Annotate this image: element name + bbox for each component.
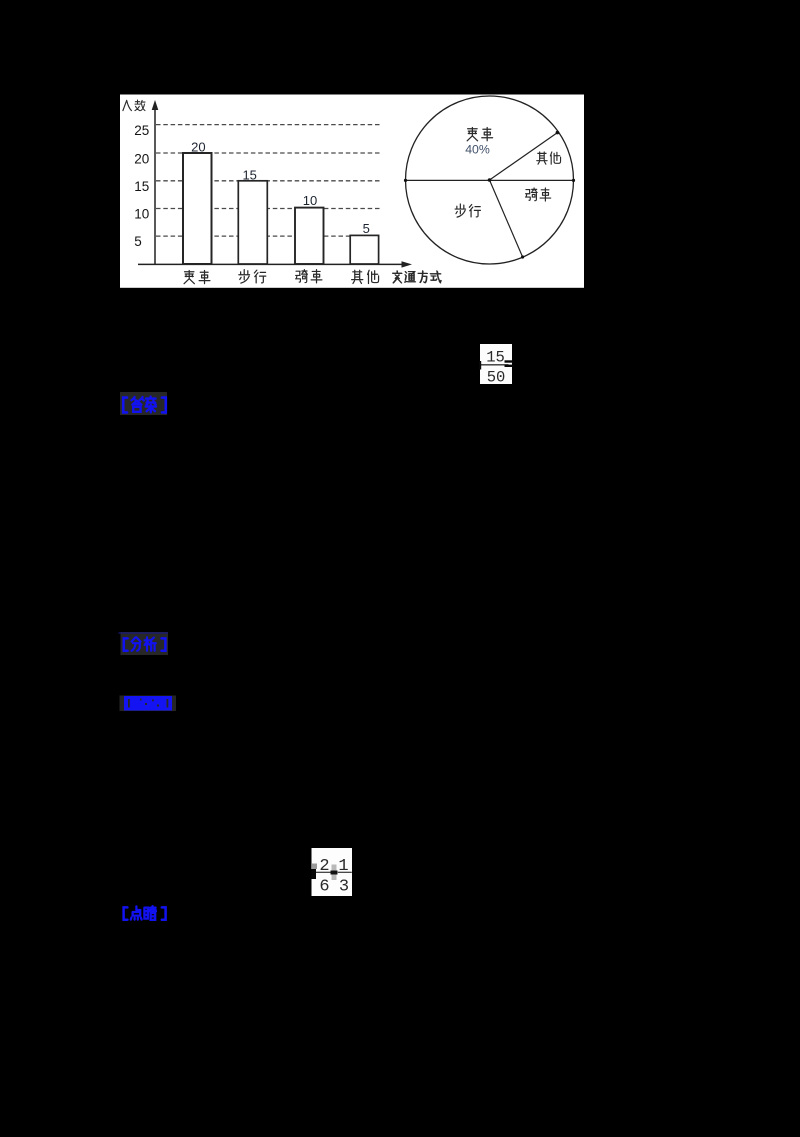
- svg-text:2: 2: [319, 857, 329, 876]
- slice line to upper right (乘车/其他): [490, 133, 558, 180]
- bar value labels: [191, 139, 370, 236]
- svg-text:50: 50: [487, 369, 506, 387]
- 分: [132, 637, 141, 650]
- 】: [162, 398, 166, 413]
- bar 步行 15: [238, 181, 267, 264]
- svg-text:20: 20: [191, 139, 205, 154]
- pie label 步行: [455, 204, 465, 217]
- chart figure white panel: [120, 95, 584, 288]
- svg-text:5: 5: [363, 221, 370, 236]
- dashed gridlines: [156, 125, 380, 237]
- pie label 其他: [537, 152, 547, 164]
- svg-text:25: 25: [134, 123, 149, 138]
- svg-text:10: 10: [303, 193, 317, 208]
- 析: [145, 637, 156, 651]
- node dots: [488, 178, 492, 182]
- equals between fractions: [332, 865, 337, 881]
- svg-text:1: 1: [338, 857, 348, 876]
- horizontal diameter line: [406, 179, 574, 181]
- pie label 骑车: [526, 188, 538, 201]
- pie circle: [406, 96, 574, 264]
- svg-text:10: 10: [134, 207, 149, 222]
- 【: [124, 907, 128, 919]
- svg-text:6: 6: [319, 878, 329, 897]
- svg-text:40%: 40%: [465, 142, 490, 156]
- y tick labels: [134, 123, 149, 249]
- svg-text:5: 5: [134, 234, 142, 249]
- svg-text:15: 15: [134, 179, 149, 194]
- 【: [123, 398, 127, 413]
- 【: [124, 638, 128, 650]
- svg-text:15: 15: [242, 167, 256, 182]
- equals sign after fraction: [505, 360, 514, 362]
- dark blob at left edge: [312, 869, 317, 879]
- x axis: [138, 263, 404, 265]
- y axis: [154, 106, 156, 265]
- category label 乘车: [184, 270, 194, 283]
- pie label 乘车: [467, 127, 477, 140]
- category label 步行: [239, 270, 250, 283]
- bar 其他 5: [350, 235, 378, 264]
- 点: [131, 906, 142, 919]
- svg-text:20: 20: [134, 152, 149, 167]
- 睛: [144, 906, 156, 920]
- 】: [162, 907, 166, 919]
- category label 其他: [352, 270, 363, 283]
- category label 骑车: [296, 270, 308, 283]
- bar 乘车 20: [183, 153, 212, 264]
- svg-text:3: 3: [339, 878, 349, 897]
- svg-text:15: 15: [486, 349, 505, 367]
- axis label 交通方式: [393, 271, 403, 283]
- 】: [162, 638, 166, 650]
- axis label 人数: [123, 100, 132, 110]
- slice line to bottom (步行/骑车): [490, 180, 523, 257]
- bar 骑车 10: [295, 208, 324, 264]
- left edge dark tick: [479, 361, 481, 370]
- 答: [132, 397, 144, 412]
- 案: [146, 397, 156, 413]
